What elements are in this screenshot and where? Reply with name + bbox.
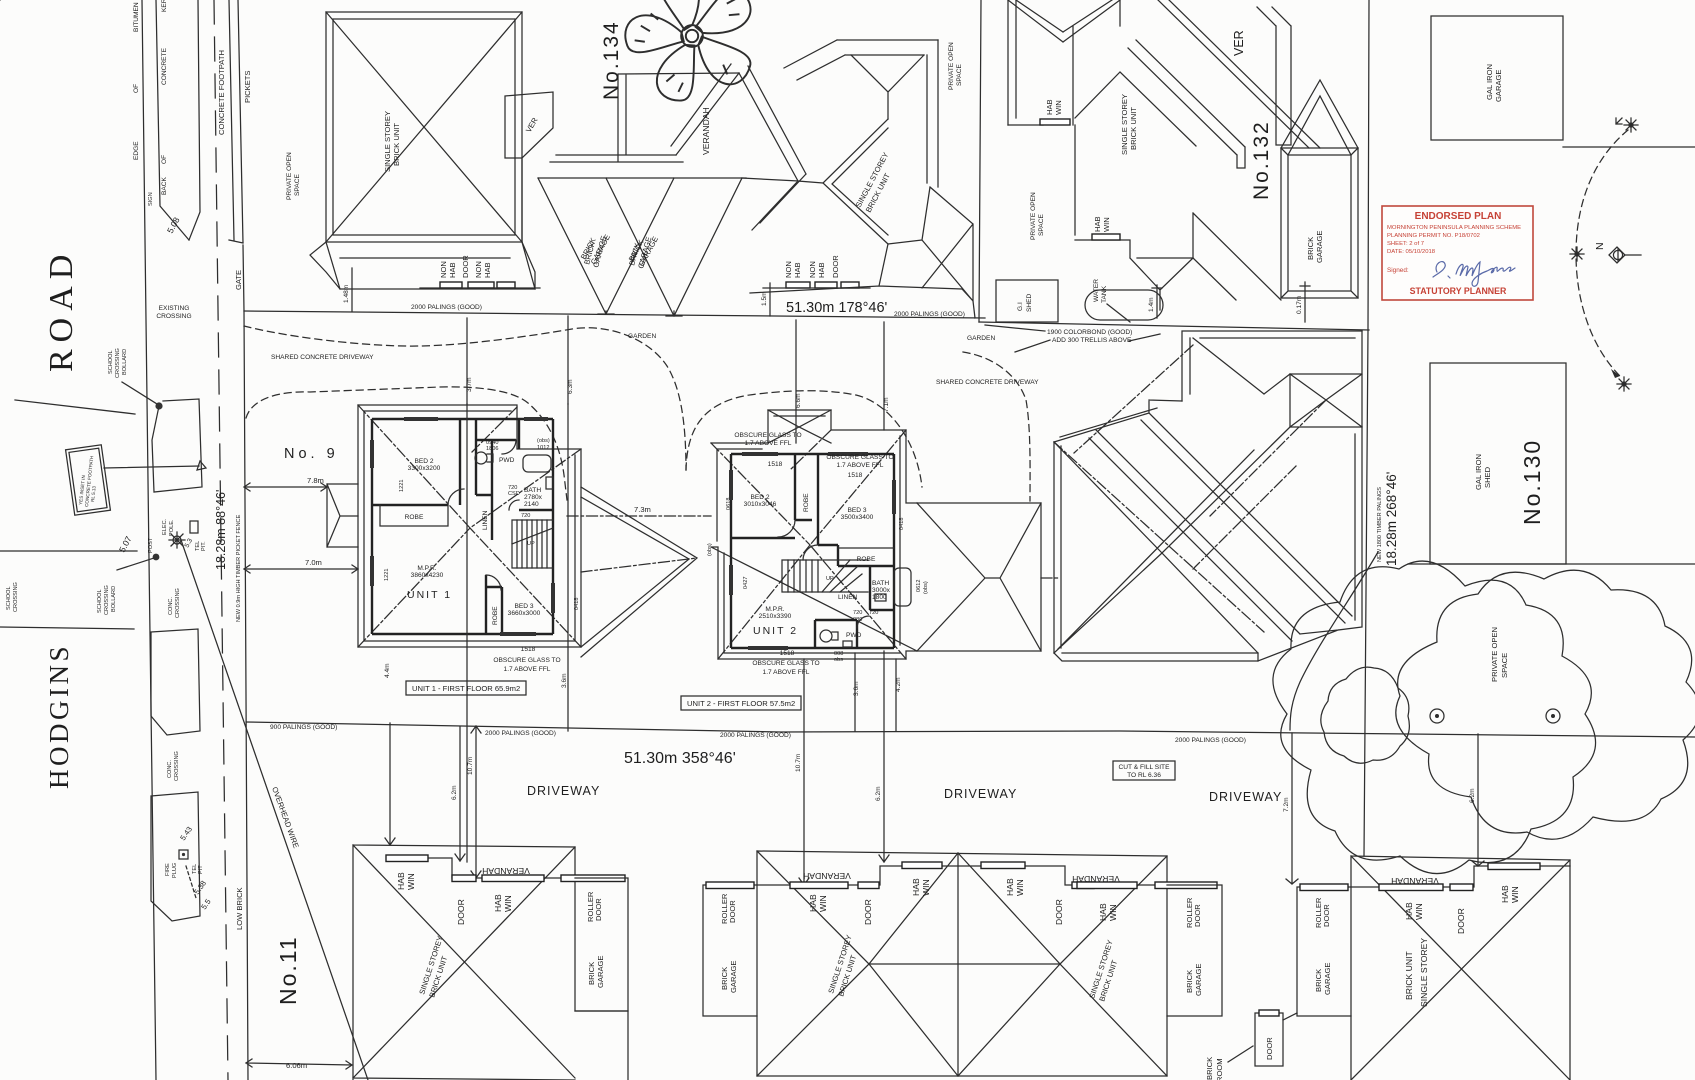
tree cloud small — [1321, 667, 1410, 763]
svg-text:PLUG: PLUG — [172, 863, 178, 878]
window hab win 1 — [1040, 119, 1070, 125]
B2 windows — [790, 882, 848, 889]
dim 7.0m line — [244, 565, 358, 573]
svg-text:7.3m: 7.3m — [634, 505, 651, 514]
svg-text:PLANNING PERMIT NO. P18/0702: PLANNING PERMIT NO. P18/0702 — [1387, 233, 1480, 239]
svg-text:CROSSING: CROSSING — [104, 585, 110, 615]
svg-text:SINGLE STOREY: SINGLE STOREY — [1419, 938, 1429, 1007]
elec pole symbol — [173, 536, 181, 544]
svg-text:1.4m: 1.4m — [1148, 297, 1155, 312]
line right of garage — [1563, 146, 1695, 148]
svg-text:DOOR: DOOR — [456, 899, 466, 925]
building no134 west wing square — [326, 12, 522, 242]
B4 windows — [1379, 884, 1443, 891]
svg-text:OBSCURE GLASS TO: OBSCURE GLASS TO — [752, 660, 819, 667]
svg-text:BRICK UNIT: BRICK UNIT — [1404, 951, 1414, 1000]
robe strip bed3 — [838, 547, 894, 549]
dashline left top road — [0, 0, 1, 1]
svg-text:1518: 1518 — [848, 472, 863, 479]
no130 shed box — [1430, 363, 1566, 564]
hip diagonals west wing — [326, 12, 522, 242]
svg-text:1.5m: 1.5m — [761, 291, 768, 306]
svg-text:BRICK: BRICK — [1314, 969, 1323, 992]
svg-text:PICKETS: PICKETS — [243, 71, 252, 104]
svg-text:SIGN: SIGN — [148, 192, 154, 206]
svg-text:1.48m: 1.48m — [343, 284, 350, 303]
svg-text:ENDORSED PLAN: ENDORSED PLAN — [1415, 211, 1502, 222]
svg-text:3.7m: 3.7m — [466, 377, 473, 392]
svg-text:WIN: WIN — [406, 873, 416, 890]
svg-text:3000x: 3000x — [872, 587, 891, 594]
svg-text:1.7 ABOVE FFL: 1.7 ABOVE FFL — [837, 462, 884, 469]
kerb strip right line — [189, 0, 200, 240]
svg-text:NEW 1800 TIMBER PALINGS: NEW 1800 TIMBER PALINGS — [1377, 487, 1383, 562]
svg-text:GARDEN: GARDEN — [628, 333, 656, 340]
svg-text:TANK: TANK — [1101, 285, 1108, 303]
svg-text:SHARED CONCRETE DRIVEWAY: SHARED CONCRETE DRIVEWAY — [936, 379, 1039, 386]
edge of bitumen — [142, 0, 156, 1080]
svg-text:OF: OF — [133, 84, 140, 93]
tick 1.48m — [351, 268, 353, 311]
svg-text:OF: OF — [161, 155, 168, 164]
svg-text:BRICK: BRICK — [1205, 1057, 1214, 1080]
svg-text:PIT.: PIT. — [201, 541, 207, 551]
svg-text:UNIT 2: UNIT 2 — [753, 625, 798, 637]
hip roof east of unit2 — [917, 503, 1041, 651]
window bars unit1 — [404, 417, 438, 421]
svg-text:GARAGE: GARAGE — [596, 956, 605, 989]
B1 garage — [575, 878, 628, 1011]
tick 0.17m — [1300, 282, 1310, 322]
svg-text:51.30m 358°46': 51.30m 358°46' — [624, 750, 736, 767]
driveway arc around unit2 — [686, 391, 922, 487]
verandah strip VER — [505, 92, 553, 242]
endorsed plan stamp — [1382, 206, 1533, 300]
svg-text:M.P.R.: M.P.R. — [417, 565, 436, 572]
svg-text:CROSSING: CROSSING — [115, 348, 121, 378]
svg-text:2780x: 2780x — [524, 494, 543, 501]
svg-text:BRICK: BRICK — [587, 962, 596, 985]
svg-text:2000 PALINGS (GOOD): 2000 PALINGS (GOOD) — [411, 304, 482, 311]
svg-text:GARAGE: GARAGE — [1494, 70, 1503, 103]
svg-text:HAB: HAB — [808, 894, 818, 912]
door arcs unit2 — [778, 520, 869, 628]
svg-text:CROSSING: CROSSING — [13, 582, 19, 612]
svg-text:SHEET: 2 of 7: SHEET: 2 of 7 — [1387, 241, 1424, 247]
tick 1.5m — [769, 283, 771, 316]
svg-text:DOOR: DOOR — [1322, 904, 1331, 927]
svg-text:SCHOOL: SCHOOL — [6, 586, 12, 610]
garage between B3 B4 — [1167, 885, 1222, 1016]
svg-text:1518: 1518 — [768, 461, 783, 468]
svg-text:ELEC.: ELEC. — [162, 518, 168, 535]
svg-text:CUT & FILL SITE: CUT & FILL SITE — [1119, 764, 1171, 771]
svg-text:DOOR: DOOR — [1456, 908, 1466, 934]
building B4 — [1351, 856, 1570, 1080]
svg-text:DRIVEWAY: DRIVEWAY — [527, 784, 600, 798]
svg-text:EXISTING: EXISTING — [159, 305, 190, 312]
star mid — [1570, 247, 1584, 261]
bed3 walls — [818, 454, 894, 566]
svg-text:WIN: WIN — [1414, 903, 1424, 920]
roof band diagonals — [1089, 427, 1362, 661]
svg-text:DRIVEWAY: DRIVEWAY — [944, 787, 1017, 801]
crossing ramp 1 — [152, 399, 202, 492]
dim 7.3m dashdot — [567, 515, 711, 517]
big left square — [1054, 442, 1258, 661]
svg-text:WIN: WIN — [1015, 879, 1025, 896]
svg-text:BED 3: BED 3 — [847, 507, 866, 514]
svg-text:6.2m: 6.2m — [875, 786, 882, 801]
svg-text:LOW BRICK: LOW BRICK — [235, 887, 244, 930]
stairs unit2 — [782, 560, 868, 592]
svg-text:1806: 1806 — [486, 446, 498, 452]
svg-text:2000 PALINGS (GOOD): 2000 PALINGS (GOOD) — [1175, 737, 1246, 744]
svg-text:VERANDAH: VERANDAH — [482, 866, 530, 876]
svg-text:10.7m: 10.7m — [467, 756, 474, 775]
bath room — [519, 419, 553, 510]
svg-text:HAB: HAB — [493, 894, 503, 912]
boundary no9 no132 — [979, 0, 981, 322]
svg-text:6.3m: 6.3m — [567, 379, 574, 394]
svg-text:VERANDAH: VERANDAH — [1391, 876, 1439, 886]
svg-text:6.2m: 6.2m — [451, 785, 458, 800]
svg-text:2510x3390: 2510x3390 — [759, 613, 792, 620]
B4 verandah wall — [1351, 866, 1570, 887]
svg-text:GARAGE: GARAGE — [1315, 231, 1324, 264]
svg-text:MORNINGTON PENINSULA PLANNING: MORNINGTON PENINSULA PLANNING SCHEME — [1387, 225, 1521, 231]
svg-text:DOOR: DOOR — [1193, 904, 1202, 927]
existing house top wing — [1182, 331, 1362, 401]
svg-text:BRICK: BRICK — [720, 967, 729, 990]
vert dim 6.2m tree — [1472, 734, 1484, 866]
overhead wire — [181, 540, 368, 1080]
B1 X roof — [353, 845, 575, 1078]
svg-text:BATH: BATH — [872, 580, 889, 587]
driveway arc ne corner — [963, 352, 1030, 501]
B1 windows — [386, 855, 428, 862]
svg-text:1.7 ABOVE FFL: 1.7 ABOVE FFL — [763, 669, 810, 676]
svg-text:ROBE: ROBE — [405, 514, 424, 521]
courtyard verandah — [550, 73, 739, 162]
svg-text:GAL IRON: GAL IRON — [1474, 454, 1483, 490]
svg-text:No. 9: No. 9 — [284, 446, 339, 462]
svg-text:(obs): (obs) — [923, 581, 929, 594]
no132 house roof — [1008, 0, 1016, 125]
svg-text:NEW 0.9m HIGH TIMBER PICKET FE: NEW 0.9m HIGH TIMBER PICKET FENCE — [236, 514, 242, 622]
svg-text:3.6m: 3.6m — [561, 673, 568, 688]
svg-text:G.I: G.I — [1017, 302, 1024, 311]
vert dim 7.2m b4 — [1286, 733, 1298, 884]
svg-text:WIN: WIN — [1102, 217, 1111, 232]
B2 X roof — [757, 851, 1167, 1076]
svg-text:WIN: WIN — [1108, 904, 1118, 921]
svg-text:GAL IRON: GAL IRON — [1485, 64, 1494, 100]
unit2 top bay hips — [768, 410, 831, 443]
svg-text:NON: NON — [474, 261, 483, 278]
svg-text:CROSSING: CROSSING — [156, 313, 191, 320]
pwd unit2 — [815, 620, 857, 648]
svg-text:SPACE: SPACE — [956, 64, 963, 86]
svg-text:HAB: HAB — [911, 878, 921, 896]
tree cloud big left — [1273, 561, 1596, 873]
svg-text:1.7 ABOVE FFL: 1.7 ABOVE FFL — [504, 666, 551, 673]
arc dashed — [1576, 130, 1628, 376]
pwd toilet — [475, 452, 493, 464]
svg-text:FIRE: FIRE — [165, 863, 171, 876]
svg-text:No.11: No.11 — [275, 935, 301, 1005]
svg-text:DATE: 05/10/2018: DATE: 05/10/2018 — [1387, 249, 1436, 255]
svg-text:OBSCURE GLASS TO: OBSCURE GLASS TO — [493, 657, 560, 664]
svg-text:PWD: PWD — [846, 632, 862, 639]
svg-text:0418: 0418 — [899, 518, 905, 530]
colorbond fence line — [979, 322, 1369, 330]
B2 verandah wall — [757, 866, 1167, 885]
svg-text:1900 COLORBOND (GOOD): 1900 COLORBOND (GOOD) — [1047, 329, 1132, 336]
unit1 area box — [406, 681, 526, 695]
svg-text:PRIVATE OPEN: PRIVATE OPEN — [1030, 192, 1037, 240]
svg-text:PIT: PIT — [198, 865, 204, 874]
svg-text:Signed:: Signed: — [1387, 267, 1409, 274]
svg-text:1.7 ABOVE FFL: 1.7 ABOVE FFL — [745, 440, 792, 447]
svg-text:BOLLARD: BOLLARD — [122, 349, 128, 375]
B1 verandah wall — [389, 858, 575, 878]
boundary picket fence west — [243, 245, 248, 1080]
svg-text:CROSSING: CROSSING — [174, 751, 180, 781]
svg-text:7.8m: 7.8m — [307, 476, 324, 485]
star bottom — [1617, 377, 1631, 391]
window NON HAB right group — [786, 282, 810, 288]
vert dim line b1 left — [385, 723, 395, 845]
svg-text:18.28m 88°46': 18.28m 88°46' — [214, 490, 228, 570]
door arcs — [448, 440, 519, 590]
vert dim line 3.7m — [466, 318, 468, 404]
svg-text:TO RL 6.36: TO RL 6.36 — [1127, 772, 1161, 779]
svg-text:1518: 1518 — [521, 646, 536, 653]
tel pit — [190, 521, 198, 533]
svg-text:ROBE: ROBE — [492, 606, 499, 625]
svg-text:GARDEN: GARDEN — [967, 335, 995, 342]
window bars unit2 — [742, 452, 778, 456]
svg-text:No.134: No.134 — [600, 20, 623, 100]
svg-text:NON: NON — [439, 261, 448, 278]
svg-text:SPACE: SPACE — [1500, 653, 1509, 678]
leader bollard — [122, 382, 157, 404]
svg-text:VERANDAH: VERANDAH — [1072, 874, 1120, 884]
svg-text:DRIVEWAY: DRIVEWAY — [1209, 790, 1282, 804]
svg-text:2000 PALINGS (GOOD): 2000 PALINGS (GOOD) — [894, 311, 965, 318]
svg-text:No.132: No.132 — [1250, 120, 1273, 200]
svg-text:(obs): (obs) — [707, 543, 713, 556]
svg-text:4.4m: 4.4m — [384, 663, 391, 678]
B4 X roof — [1351, 856, 1570, 1080]
driveway arc around unit1 — [246, 387, 567, 500]
svg-text:DOOR: DOOR — [1054, 899, 1064, 925]
svg-text:LINEN: LINEN — [838, 594, 858, 601]
svg-text:900 PALINGS (GOOD): 900 PALINGS (GOOD) — [270, 724, 337, 731]
svg-text:BED 2: BED 2 — [414, 458, 433, 465]
concrete footpath double line — [229, 0, 243, 243]
svg-text:6.06m: 6.06m — [286, 1061, 307, 1070]
svg-text:PRIVATE OPEN: PRIVATE OPEN — [948, 42, 955, 90]
svg-text:ROAD: ROAD — [43, 248, 80, 372]
svg-text:080: 080 — [853, 617, 862, 623]
garden dashed line north — [244, 326, 686, 470]
svg-text:HAB: HAB — [1500, 885, 1510, 903]
svg-text:SINGLE STOREY: SINGLE STOREY — [1120, 94, 1129, 155]
svg-text:3860x4230: 3860x4230 — [411, 572, 444, 579]
svg-text:ROBE: ROBE — [803, 493, 810, 512]
svg-text:N: N — [1594, 242, 1606, 250]
svg-text:UNIT 1 - FIRST FLOOR 65.9m2: UNIT 1 - FIRST FLOOR 65.9m2 — [412, 684, 520, 693]
svg-text:UP: UP — [826, 576, 834, 582]
big square hips — [1054, 427, 1290, 653]
svg-text:720: 720 — [869, 610, 878, 616]
svg-text:2140: 2140 — [524, 501, 539, 508]
svg-text:CSD: CSD — [508, 491, 520, 497]
east boundary fence — [1364, 0, 1369, 856]
robe bed2 — [380, 505, 448, 526]
hip roof between units — [581, 487, 697, 657]
garage no132 — [1281, 148, 1358, 298]
svg-text:SCHOOL: SCHOOL — [108, 350, 114, 374]
svg-text:VER: VER — [1232, 30, 1246, 56]
unit2 eave outline — [711, 410, 917, 659]
svg-text:DOOR: DOOR — [594, 898, 603, 921]
svg-text:WIN: WIN — [818, 895, 828, 912]
svg-text:1221: 1221 — [384, 569, 390, 581]
school crossing line — [0, 550, 137, 552]
svg-text:WIN: WIN — [1510, 886, 1520, 903]
svg-text:WIN: WIN — [1054, 100, 1063, 115]
svg-text:0612: 0612 — [916, 580, 922, 592]
svg-text:HAB: HAB — [1005, 878, 1015, 896]
line right of no130 — [1408, 563, 1695, 565]
bollard dot — [155, 402, 162, 409]
svg-text:3.6m: 3.6m — [853, 681, 860, 696]
svg-text:6.6m: 6.6m — [795, 393, 802, 408]
svg-text:STATUTORY PLANNER: STATUTORY PLANNER — [1410, 286, 1507, 296]
svg-text:OBSCURE GLASS TO: OBSCURE GLASS TO — [734, 432, 801, 439]
svg-text:GARAGE: GARAGE — [1323, 963, 1332, 996]
sign board in footpath — [66, 445, 111, 515]
gal iron garage — [1431, 16, 1563, 140]
svg-text:M.P.R.: M.P.R. — [765, 606, 784, 613]
no132 wall steps — [1008, 125, 1193, 310]
gi shed — [996, 280, 1058, 322]
svg-text:BOLLARD: BOLLARD — [111, 586, 117, 612]
building no11 unit B1 — [353, 845, 628, 1080]
svg-text:CROSSING: CROSSING — [175, 588, 181, 618]
svg-text:HAB: HAB — [1404, 902, 1414, 920]
post dot — [153, 554, 160, 561]
signature — [1433, 262, 1515, 287]
svg-text:CONCRETE FOOTPATH: CONCRETE FOOTPATH — [217, 50, 226, 135]
staircase band to big square — [1054, 400, 1182, 442]
tick 1.4m — [1152, 285, 1162, 318]
svg-text:GARAGE: GARAGE — [729, 961, 738, 994]
south boundary fence — [246, 722, 1695, 737]
svg-text:VERANDAH: VERANDAH — [803, 871, 851, 881]
svg-text:BATH: BATH — [524, 487, 541, 494]
svg-text:KERB: KERB — [161, 0, 168, 12]
ridge dashdots ex house — [1041, 345, 1326, 632]
svg-text:18.28m 268°46': 18.28m 268°46' — [1384, 472, 1399, 566]
bed3 walls — [486, 575, 502, 634]
unit1 hip diagonals — [358, 405, 581, 647]
garage gables — [538, 178, 746, 316]
svg-text:SCHOOL: SCHOOL — [97, 589, 103, 613]
svg-text:HAB: HAB — [1045, 99, 1054, 115]
svg-text:WIN: WIN — [503, 895, 513, 912]
tree cloud big right — [1396, 570, 1695, 839]
B4 garage left — [1297, 887, 1351, 1016]
unit2 inner walls — [731, 454, 894, 648]
vert dim line 6.6m — [795, 320, 797, 443]
school crossing line 2 — [0, 627, 134, 629]
svg-text:DOOR: DOOR — [863, 899, 873, 925]
svg-text:7.2m: 7.2m — [1283, 797, 1290, 812]
svg-text:BRICK UNIT: BRICK UNIT — [1129, 107, 1138, 150]
duplex B2 B3 — [757, 851, 1167, 1076]
svg-text:720: 720 — [853, 610, 862, 616]
svg-text:SHARED CONCRETE DRIVEWAY: SHARED CONCRETE DRIVEWAY — [271, 354, 374, 361]
svg-text:1221: 1221 — [399, 480, 405, 492]
svg-text:0427: 0427 — [743, 577, 749, 589]
tree trunks — [1430, 709, 1444, 723]
svg-text:51.30m 178°46': 51.30m 178°46' — [786, 300, 888, 316]
bath unit2 — [870, 566, 894, 610]
svg-text:BITUMEN: BITUMEN — [133, 2, 140, 32]
brick room — [1255, 1013, 1283, 1066]
svg-text:BACK: BACK — [161, 176, 168, 195]
svg-text:GARAGE: GARAGE — [1194, 964, 1203, 997]
bed2 walls — [731, 454, 812, 538]
svg-text:NON: NON — [784, 261, 793, 278]
svg-text:CONCRETE: CONCRETE — [161, 47, 168, 85]
svg-text:OBSCURE GLASS TO: OBSCURE GLASS TO — [826, 454, 893, 461]
svg-text:2000 PALINGS (GOOD): 2000 PALINGS (GOOD) — [720, 732, 791, 739]
svg-text:POLE.: POLE. — [169, 519, 175, 536]
svg-text:UP: UP — [527, 541, 535, 547]
svg-text:NON: NON — [808, 261, 817, 278]
vert line through unit1 — [466, 404, 468, 862]
svg-text:DOOR: DOOR — [728, 900, 737, 923]
svg-text:ADD 300 TRELLIS ABOVE: ADD 300 TRELLIS ABOVE — [1052, 337, 1132, 344]
unit2 area box — [681, 696, 801, 710]
svg-text:3010x3046: 3010x3046 — [744, 501, 777, 508]
window hab win 2 — [1092, 234, 1120, 240]
vert dim 6.2m b1 — [455, 727, 465, 861]
svg-text:SINGLE STOREY: SINGLE STOREY — [383, 111, 392, 172]
svg-text:UNIT 2 - FIRST FLOOR 57.5m2: UNIT 2 - FIRST FLOOR 57.5m2 — [687, 699, 795, 708]
leader sign to footpath — [104, 466, 199, 468]
svg-text:WIN: WIN — [921, 879, 931, 896]
svg-text:0.17m: 0.17m — [1296, 295, 1303, 314]
svg-text:BRICK UNIT: BRICK UNIT — [392, 123, 401, 166]
top wing inner X square — [1290, 331, 1362, 427]
svg-text:WATER: WATER — [1093, 279, 1100, 302]
no132 ver strip — [1257, 7, 1291, 145]
svg-text:CONC.: CONC. — [168, 597, 174, 615]
road marking line — [15, 400, 135, 414]
svg-text:DOOR: DOOR — [831, 255, 840, 278]
crossing ramp 3 — [151, 792, 200, 921]
svg-text:BRICK: BRICK — [1306, 237, 1315, 260]
unit1 inner walls — [372, 419, 553, 634]
svg-text:SPACE: SPACE — [294, 174, 301, 196]
svg-text:SPACE: SPACE — [1038, 214, 1045, 236]
